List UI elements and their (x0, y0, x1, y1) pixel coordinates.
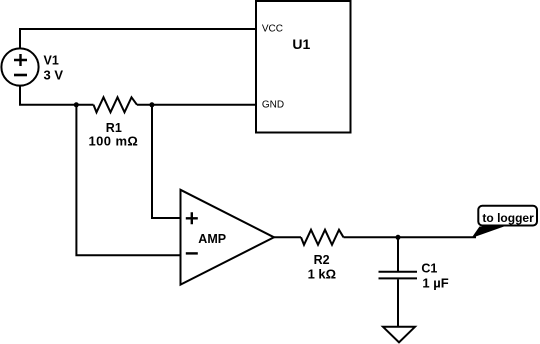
node junction at R1 right (149, 102, 154, 107)
voltage source V1 (1, 48, 38, 85)
resistor R2 (301, 230, 344, 245)
wire junction to op-amp non-inverting input (152, 105, 181, 218)
svg-text:3 V: 3 V (44, 68, 64, 83)
svg-text:VCC: VCC (262, 24, 283, 35)
flag to logger (472, 206, 538, 238)
svg-text:AMP: AMP (198, 232, 226, 246)
svg-text:GND: GND (262, 100, 284, 111)
wire C1 to ground (397, 279, 399, 326)
svg-text:1 µF: 1 µF (422, 276, 448, 291)
node junction at R1 left (74, 102, 79, 107)
wire AMP output to R2 (274, 236, 301, 238)
svg-text:to logger: to logger (482, 211, 534, 225)
wire V1 positive terminal to U1 VCC pin (20, 29, 256, 48)
capacitor C1 (379, 272, 418, 279)
IC U1 (256, 1, 351, 133)
svg-text:100 mΩ: 100 mΩ (89, 133, 139, 148)
wire junction to C1 (397, 237, 399, 271)
op-amp AMP (181, 190, 275, 285)
svg-text:U1: U1 (292, 36, 310, 52)
wire V1 negative terminal to R1 (20, 86, 94, 105)
wire R2 to flag (344, 236, 477, 238)
svg-text:1 kΩ: 1 kΩ (308, 267, 337, 282)
wire R1 to U1 GND pin (137, 104, 256, 106)
ground (383, 327, 415, 343)
svg-text:R2: R2 (314, 253, 330, 267)
resistor R1 (94, 97, 138, 112)
svg-text:V1: V1 (44, 53, 59, 67)
svg-text:C1: C1 (421, 262, 437, 276)
node junction at C1 tap (396, 235, 401, 240)
wire junction to op-amp inverting input (76, 105, 181, 255)
